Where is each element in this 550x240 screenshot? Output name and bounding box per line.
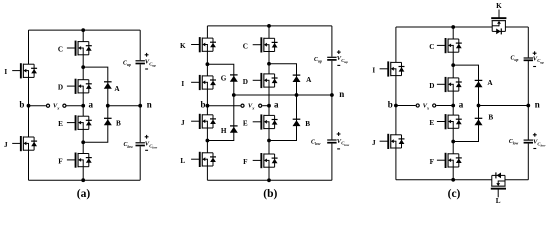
- svg-text:A: A: [306, 76, 312, 84]
- transistor E (b): [253, 114, 278, 129]
- svg-text:a: a: [459, 99, 464, 109]
- capacitor Clow (a): [136, 142, 145, 146]
- wire (c) top rail left: [396, 26, 492, 28]
- wire (a) left rail mid: [28, 77, 30, 137]
- transistor I (c): [380, 61, 405, 76]
- svg-text:A: A: [487, 79, 493, 87]
- wire (b) left rail 1: [206, 26, 208, 38]
- node b (a): [27, 104, 31, 108]
- terminal Vx+ (a): [46, 104, 49, 107]
- svg-text:D: D: [243, 78, 248, 86]
- wire (c) bottom rail left: [396, 179, 492, 181]
- node (c) top junction: [451, 25, 455, 29]
- wire (c) b to Vx: [396, 105, 416, 107]
- svg-text:H: H: [221, 127, 227, 135]
- svg-text:L: L: [180, 157, 185, 165]
- wire (c) center 4: [452, 128, 454, 141]
- label VClow (c) plus: [533, 133, 537, 137]
- wire (c) diode branch upper: [453, 65, 478, 105]
- transistor D (c): [437, 77, 462, 92]
- transistor J (c): [380, 134, 405, 149]
- terminal Vx+ (b): [241, 104, 244, 107]
- svg-text:b: b: [388, 99, 393, 109]
- transistor I (b): [191, 75, 216, 90]
- wire (b) left rail 4: [206, 89, 208, 106]
- svg-text:I: I: [372, 66, 375, 74]
- svg-text:G: G: [221, 75, 227, 83]
- wire (b) left rail 5: [206, 106, 208, 115]
- wire (c) left rail 2: [395, 76, 397, 106]
- wire (c) right rail lower: [527, 144, 529, 180]
- wire (b) G branch: [207, 64, 233, 95]
- wire (b) center 4: [268, 129, 270, 141]
- wire (b) a to E: [268, 106, 270, 116]
- wire (b) b to Vx: [207, 105, 240, 107]
- wire (b) H branch: [207, 95, 233, 141]
- svg-text:(c): (c): [448, 188, 461, 200]
- diode A (b): [293, 75, 301, 82]
- label VCup (c) plus: [533, 51, 537, 55]
- svg-text:C: C: [58, 46, 63, 54]
- wire (a) F to bottom rail: [82, 167, 84, 181]
- wire (a) top rail: [29, 29, 141, 31]
- wire (b) cap branch lower: [331, 144, 333, 181]
- wire (c) left rail 4: [395, 148, 397, 180]
- svg-text:(a): (a): [77, 188, 91, 200]
- wire (b) left rail 7: [206, 141, 208, 153]
- capacitor Cup (b): [327, 57, 336, 61]
- label VClow (a) minus: [145, 150, 148, 151]
- diode A (c): [475, 80, 483, 87]
- wire (c) left rail 3: [395, 106, 397, 135]
- svg-text:J: J: [4, 141, 8, 149]
- node (a) diode junction: [106, 104, 110, 108]
- wire (a) diode branch upper: [83, 67, 108, 106]
- wire (b) center 1: [268, 26, 270, 38]
- label VCup (b) plus: [337, 50, 341, 54]
- svg-text:n: n: [339, 89, 344, 99]
- transistor J (b): [191, 114, 216, 129]
- terminal Vx- (a): [63, 104, 66, 107]
- node (b) K-I junction: [206, 62, 210, 66]
- svg-text:B: B: [305, 120, 310, 128]
- svg-text:n: n: [535, 99, 540, 109]
- node n (c): [526, 104, 530, 108]
- svg-text:F: F: [58, 158, 63, 166]
- node (a) top junction: [81, 28, 85, 32]
- svg-text:K: K: [496, 2, 502, 10]
- svg-text:L: L: [496, 197, 501, 205]
- wire (a) D to a: [82, 93, 84, 106]
- wire (c) diode branch lower: [453, 106, 478, 142]
- wire (a) a to E: [82, 106, 84, 117]
- wire (b) top rail: [207, 25, 332, 27]
- node (b) C-D junction: [267, 62, 271, 66]
- node a (c): [451, 104, 455, 108]
- svg-text:D: D: [429, 82, 434, 90]
- terminal Vx+ (c): [416, 104, 419, 107]
- transistor K (c): [491, 10, 506, 35]
- wire (c) center 1: [452, 27, 454, 39]
- wire (a) junction to F: [82, 142, 84, 153]
- svg-text:I: I: [4, 68, 7, 76]
- wire (c) center 6: [452, 167, 454, 180]
- diode A: [104, 82, 112, 89]
- wire (c) a to E: [452, 106, 454, 116]
- node (a) bottom junction: [81, 178, 85, 182]
- diode B (c): [475, 118, 483, 125]
- label VCup (a) plus: [145, 53, 149, 57]
- wire (b) left rail 6: [206, 128, 208, 141]
- svg-text:B: B: [116, 119, 121, 127]
- node (b) bottom junction: [267, 178, 271, 182]
- node n (a): [138, 104, 142, 108]
- wire (c) center 2: [452, 52, 454, 65]
- svg-text:J: J: [372, 139, 376, 147]
- wire (b) center 5: [268, 141, 270, 155]
- wire (b) cap branch mid: [331, 61, 333, 140]
- svg-text:K: K: [180, 42, 186, 50]
- diode B (b): [293, 119, 301, 126]
- transistor C (c): [437, 38, 462, 53]
- transistor D: [67, 79, 92, 94]
- wire (a) left rail upper: [28, 30, 30, 64]
- wire (a) C to junction: [82, 55, 84, 67]
- capacitor Clow (b): [327, 139, 336, 143]
- transistor D (b): [253, 73, 278, 88]
- wire (b) center 6: [268, 167, 270, 180]
- svg-text:D: D: [58, 84, 63, 92]
- transistor C (b): [253, 37, 278, 52]
- wire (b) clamp to n: [234, 94, 332, 96]
- wire (a) bottom rail: [29, 179, 141, 181]
- svg-text:(b): (b): [263, 188, 277, 200]
- wire (c) D to a: [452, 91, 454, 105]
- svg-text:a: a: [274, 100, 279, 110]
- node (a) E-F junction: [81, 140, 85, 144]
- wire (b) D to a: [268, 87, 270, 106]
- wire (b) A branch: [269, 64, 297, 95]
- terminal Vx- (b): [259, 104, 262, 107]
- transistor J: [12, 136, 37, 151]
- label VCup (a) minus: [145, 68, 148, 69]
- wire (c) center 5: [452, 142, 454, 154]
- node a (a): [81, 104, 85, 108]
- wire (c) Vx to a: [436, 105, 453, 107]
- svg-text:E: E: [243, 119, 248, 127]
- svg-text:F: F: [243, 158, 248, 166]
- wire (b) left rail 3: [206, 64, 208, 76]
- wire (c) left rail 1: [395, 27, 397, 62]
- node (c) diode junction: [477, 104, 481, 108]
- transistor F (b): [253, 153, 278, 168]
- node (b) E-F junction: [267, 139, 271, 143]
- svg-text:a: a: [89, 100, 94, 110]
- wire (b) cap branch upper: [331, 26, 333, 57]
- transistor C: [67, 41, 92, 56]
- node b (c): [394, 104, 398, 108]
- capacitor Clow (c): [524, 140, 533, 144]
- svg-text:B: B: [488, 113, 493, 121]
- node b (b): [206, 104, 210, 108]
- label VClow (c) minus: [533, 148, 536, 149]
- svg-text:F: F: [430, 158, 435, 166]
- node (b) G-H junction: [232, 93, 236, 97]
- transistor L (b): [191, 152, 216, 167]
- wire (a) E to junction: [82, 129, 84, 142]
- wire (a) b to Vx: [29, 105, 46, 107]
- wire (a) cap branch mid: [139, 64, 141, 142]
- wire (c) bottom rail right: [505, 179, 528, 181]
- wire (a) left rail lower: [28, 150, 30, 180]
- wire (b) Vx to a: [262, 105, 269, 107]
- svg-text:C: C: [243, 42, 248, 50]
- svg-text:b: b: [200, 100, 205, 110]
- wire (c) top rail right: [505, 26, 528, 28]
- wire (b) left rail 2: [206, 51, 208, 64]
- node (b) A-B junction: [295, 93, 299, 97]
- wire (b) left rail 8: [206, 166, 208, 180]
- label VCup (c) minus: [533, 66, 536, 67]
- transistor F (c): [437, 153, 462, 168]
- wire (c) right rail upper: [527, 27, 529, 57]
- wire (c) right rail mid: [527, 61, 529, 140]
- node (b) J-L junction: [206, 139, 210, 143]
- transistor L (c): [491, 172, 506, 197]
- svg-text:J: J: [181, 119, 185, 127]
- svg-text:E: E: [58, 120, 63, 128]
- wire (a) junction to D: [82, 67, 84, 80]
- diode H: [230, 126, 238, 133]
- wire (a) diode branch lower: [83, 106, 108, 143]
- svg-text:A: A: [114, 85, 120, 93]
- capacitor Cup (c): [524, 57, 533, 61]
- wire (a) junction to n: [108, 105, 140, 107]
- transistor F: [67, 153, 92, 168]
- label VClow (b) minus: [337, 148, 340, 149]
- wire (a) center drain C: [82, 30, 84, 41]
- terminal Vx- (c): [433, 104, 436, 107]
- node (c) C-D junction: [451, 63, 455, 67]
- wire (b) center 2: [268, 52, 270, 64]
- svg-text:I: I: [181, 80, 184, 88]
- wire (a) Vx to a: [67, 105, 84, 107]
- wire (c) center 3: [452, 65, 454, 78]
- wire (b) bottom rail: [207, 179, 332, 181]
- wire (b) B branch: [269, 95, 297, 141]
- node (c) E-F junction: [451, 140, 455, 144]
- diode B: [104, 118, 112, 125]
- transistor I: [12, 63, 37, 78]
- wire (c) junction to n: [479, 105, 529, 107]
- wire (a) cap branch upper: [139, 30, 141, 60]
- node a (b): [267, 104, 271, 108]
- wire (b) center 3: [268, 64, 270, 74]
- label VClow (a) plus: [145, 135, 149, 139]
- transistor K (b): [191, 37, 216, 52]
- svg-text:C: C: [429, 43, 434, 51]
- diode G: [230, 75, 238, 82]
- node (b) top junction: [267, 24, 271, 28]
- svg-text:E: E: [429, 119, 434, 127]
- capacitor Cup (a): [136, 60, 145, 64]
- node (a) C-D junction: [81, 65, 85, 69]
- svg-text:n: n: [147, 100, 152, 110]
- node n (b): [330, 93, 334, 97]
- label VCup (b) minus: [337, 65, 340, 66]
- label VClow (b) plus: [337, 132, 341, 136]
- wire (a) cap branch lower: [139, 146, 141, 180]
- transistor E (c): [437, 114, 462, 129]
- node (c) bottom junction: [451, 178, 455, 182]
- transistor E: [67, 115, 92, 130]
- svg-text:b: b: [19, 100, 24, 110]
